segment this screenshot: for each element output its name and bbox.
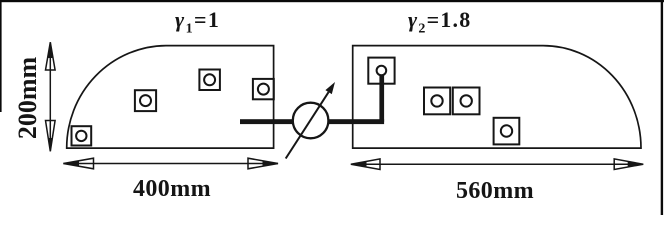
sensor S8 (494, 118, 520, 145)
wire vertical (riser to sensor S5) (379, 75, 384, 122)
sensor S6 (424, 88, 450, 115)
meter M1 (variable instrument symbol) (286, 82, 335, 159)
region outline right (gamma2 dielectric block) (353, 46, 641, 149)
sensor S7 (453, 88, 480, 115)
dimension arrow 400mm (horizontal double arrow) (63, 158, 278, 169)
region outline left (gamma1 dielectric block) (67, 46, 274, 149)
label gamma2=1.8 (408, 7, 471, 37)
sensor S1 (72, 126, 92, 145)
dimension arrow 560mm (horizontal double arrow) (351, 159, 643, 170)
dimension arrow 200mm (vertical double arrow) (46, 42, 56, 151)
label 560mm (456, 178, 534, 205)
sensor S4 (253, 79, 274, 99)
label 400mm (133, 176, 211, 203)
label gamma1=1 (175, 7, 220, 37)
sensor S5 (wired) (368, 58, 394, 84)
sensor S2 (135, 90, 156, 111)
wire horizontal (probe feed) (240, 119, 384, 124)
label 200mm (rotated) (16, 43, 40, 153)
sensor S3 (199, 70, 220, 91)
